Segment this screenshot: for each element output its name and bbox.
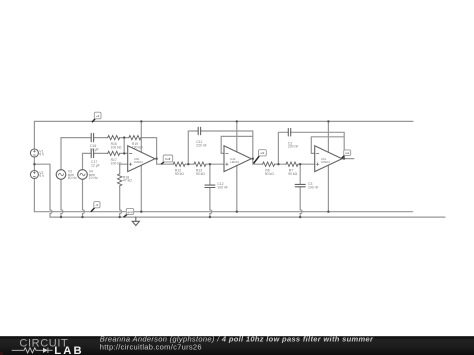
svg-text:gnd: gnd <box>127 210 132 214</box>
wire U41 output stub <box>342 158 354 160</box>
label C16 value <box>90 144 99 151</box>
label U40 value <box>134 157 143 164</box>
footer red corner mark <box>0 352 3 355</box>
resistor R7 <box>286 162 298 166</box>
wire V4 top to C17 <box>83 153 92 169</box>
wire U40 output down to stage 2 <box>157 159 174 165</box>
wire R13 to U42 non-inverting input node B <box>206 163 224 165</box>
label R17 value <box>111 158 122 165</box>
wire hop R18 over -9V rail <box>120 210 122 214</box>
label C11 value <box>196 140 207 147</box>
ground <box>132 217 139 225</box>
svg-text:-9: -9 <box>96 203 99 207</box>
label R6 value <box>265 169 274 176</box>
wire -9V rail <box>34 211 412 213</box>
wire U42 output down to stage 3 <box>253 159 263 165</box>
wire R19 to U40 output feedback <box>141 138 157 159</box>
op-amp U42 <box>224 146 251 172</box>
label V2 value <box>39 171 45 178</box>
wire node A up to C11 <box>188 131 198 164</box>
wire C3 bottom to ground rail <box>299 187 301 210</box>
wire U40 non-inverting input to R18 <box>120 164 128 174</box>
wire R18 bottom to ground rail <box>119 186 121 210</box>
svg-text:9 V: 9 V <box>39 174 45 178</box>
capacitor C16 <box>91 133 93 141</box>
junction R18 ground <box>119 216 121 218</box>
resistor R12 <box>173 162 185 166</box>
wire U42 V- power pin <box>236 165 238 211</box>
svg-text:st1: st1 <box>260 151 264 155</box>
svg-text:12 µF: 12 µF <box>91 164 100 168</box>
wire V3 bottom to ground rail <box>60 179 62 210</box>
junction node A2 <box>277 163 279 165</box>
capacitor C17 <box>91 149 93 157</box>
label R12 value <box>175 169 184 176</box>
junction node B2 <box>299 163 301 165</box>
svg-text:220 nF: 220 nF <box>196 144 207 148</box>
footer bar <box>0 334 474 355</box>
svg-text:90 kΩ: 90 kΩ <box>175 172 184 176</box>
wire R6 to R7 node A2 <box>275 163 286 165</box>
wire V1 to V2 <box>33 157 35 171</box>
wire top +9V rail <box>34 120 413 122</box>
svg-text:10 Hz: 10 Hz <box>89 176 98 180</box>
wire U40 V- power pin <box>140 165 142 211</box>
svg-text:100 nF: 100 nF <box>217 185 228 189</box>
svg-text:LM324: LM324 <box>230 160 239 164</box>
label U41 value <box>321 157 330 164</box>
resistor R16 <box>108 135 120 139</box>
wire hop V4 over -9V rail <box>83 210 85 214</box>
wire U41 inverting input feedback <box>311 137 344 154</box>
wire V1 top to +9V rail <box>33 121 35 149</box>
op-amp U41 <box>315 146 342 172</box>
svg-text:buff: buff <box>165 157 170 161</box>
node flag st1 <box>254 150 267 164</box>
svg-text:60 Hz: 60 Hz <box>68 176 77 180</box>
svg-text:10 µF: 10 µF <box>90 148 99 152</box>
junction U42 V+ rail <box>236 120 238 122</box>
voltage source V4 sine <box>78 170 88 180</box>
capacitor C2 <box>288 129 290 136</box>
wire node B down to C12 <box>209 164 211 185</box>
junction node B <box>209 163 211 165</box>
voltage source V1 <box>30 149 38 157</box>
voltage source V2 <box>30 171 38 179</box>
label C17 value <box>91 160 100 167</box>
wire V4 bottom to ground rail <box>82 179 84 210</box>
svg-text:9 V: 9 V <box>39 153 45 157</box>
label C3 value <box>308 182 319 189</box>
junction U40 V- rail <box>140 211 142 213</box>
svg-text:http://circuitlab.com/c7urs26: http://circuitlab.com/c7urs26 <box>100 343 202 352</box>
svg-text:out: out <box>345 151 349 155</box>
capacitor C12 <box>205 185 215 187</box>
wire ground rail <box>50 216 445 218</box>
wire hop C3 over -9V rail <box>300 210 302 214</box>
junction U40 output <box>155 158 157 160</box>
wire C11 to U42 output <box>201 131 253 159</box>
svg-text:90 kΩ: 90 kΩ <box>288 172 297 176</box>
wire U41 V+ power pin <box>327 121 329 152</box>
junction C12 ground <box>209 216 211 218</box>
svg-text:100 nF: 100 nF <box>308 185 319 189</box>
wire V2 bottom to -9V rail <box>33 179 35 212</box>
resistor R18 <box>118 174 122 186</box>
label V3 value <box>68 170 77 181</box>
junction U42 output <box>252 158 254 160</box>
wire R17 to op-amp U40 inverting input <box>120 152 128 154</box>
wire node B2 down to C3 <box>299 164 301 184</box>
junction R16 R19 <box>123 136 125 138</box>
label R7 value <box>288 169 297 176</box>
junction summing node <box>123 152 125 154</box>
label R18 value <box>123 175 132 182</box>
wire C17 to R17 <box>94 152 108 154</box>
capacitor C3 <box>295 184 305 186</box>
node flag -9 <box>91 202 100 212</box>
label R16 value <box>111 142 122 149</box>
junction U42 V- rail <box>236 211 238 213</box>
label C2 value <box>288 141 299 148</box>
svg-text:90 kΩ: 90 kΩ <box>265 172 274 176</box>
node flag +9 <box>92 112 101 122</box>
wire U41 V- power pin <box>327 165 329 211</box>
label V4 value <box>89 170 98 181</box>
svg-text:LM324: LM324 <box>321 160 330 164</box>
wire C16 to R16 <box>94 137 108 139</box>
wire battery midpoint to ground rail <box>34 164 50 210</box>
wire U42 V+ power pin <box>236 121 238 152</box>
wire U42 inverting input feedback <box>221 136 253 153</box>
svg-text:100 kΩ: 100 kΩ <box>111 161 122 165</box>
junction U41 V- rail <box>327 211 329 213</box>
svg-text:47 kΩ: 47 kΩ <box>123 179 132 183</box>
resistor R6 <box>263 162 275 166</box>
wire summing node vertical <box>123 138 125 154</box>
svg-text:100 kΩ: 100 kΩ <box>111 145 122 149</box>
logo resistor diode symbol <box>12 348 53 353</box>
svg-text:100 kΩ: 100 kΩ <box>132 145 143 149</box>
label V1 value <box>39 149 45 156</box>
junction U41 output <box>343 157 345 159</box>
junction V4 ground <box>81 216 83 218</box>
wire C12 bottom to ground rail <box>209 188 211 210</box>
label U42 value <box>230 157 239 164</box>
wire C2 to U41 output <box>291 132 345 158</box>
wire R12 to R13 node A <box>185 163 194 165</box>
junction C3 ground <box>299 216 301 218</box>
junction node A <box>187 163 189 165</box>
wire U40 V+ power pin <box>140 121 142 152</box>
wire hop battery midpoint over -9V rail <box>50 210 52 214</box>
label C12 value <box>217 182 228 189</box>
svg-text:90 kΩ: 90 kΩ <box>196 172 205 176</box>
resistor R19 <box>129 135 141 139</box>
node flag gnd <box>124 208 134 217</box>
svg-text:LM324: LM324 <box>134 160 143 164</box>
wire hop V3 over -9V rail <box>61 210 63 214</box>
capacitor C11 <box>198 127 200 134</box>
wire R7 to U41 non-inverting input node B2 <box>298 163 315 165</box>
svg-text:220 nF: 220 nF <box>288 145 299 149</box>
wire V3 top to C16 <box>61 138 91 170</box>
junction V3 ground <box>60 216 62 218</box>
junction U40 V+ rail <box>140 120 142 122</box>
label R13 value <box>196 169 205 176</box>
wire hop C12 over -9V rail <box>210 210 212 214</box>
junction U41 V+ rail <box>327 120 329 122</box>
op-amp U40 <box>128 146 155 172</box>
junction battery midpoint <box>33 163 35 165</box>
svg-text:LAB: LAB <box>54 345 84 355</box>
voltage source V3 sine <box>56 170 66 180</box>
node flag buff <box>161 155 173 164</box>
label R19 value <box>132 142 143 149</box>
resistor R17 <box>108 151 120 155</box>
wire node A2 up to C2 <box>278 132 288 164</box>
svg-text:+9: +9 <box>96 114 100 118</box>
node flag out <box>342 150 351 159</box>
resistor R13 <box>194 162 206 166</box>
wire R16 to R19 summing node <box>120 137 129 139</box>
